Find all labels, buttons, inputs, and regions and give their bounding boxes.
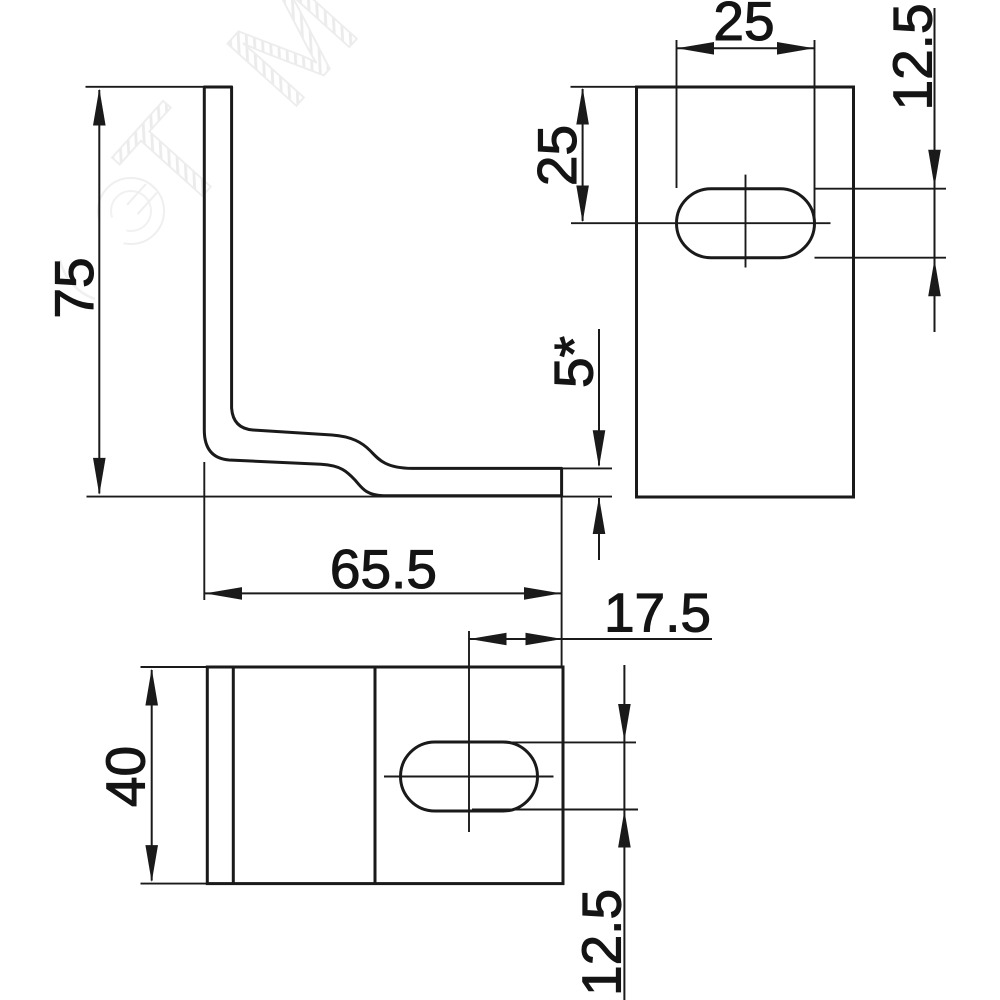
svg-text:25: 25 (713, 0, 774, 52)
svg-text:25: 25 (526, 125, 588, 186)
svg-text:17.5: 17.5 (604, 582, 711, 644)
svg-text:12.5: 12.5 (882, 3, 944, 110)
svg-text:75: 75 (43, 257, 105, 318)
svg-text:40: 40 (95, 746, 157, 807)
svg-text:5*: 5* (543, 336, 605, 388)
svg-text:12.5: 12.5 (571, 889, 633, 996)
svg-text:65.5: 65.5 (330, 538, 437, 600)
